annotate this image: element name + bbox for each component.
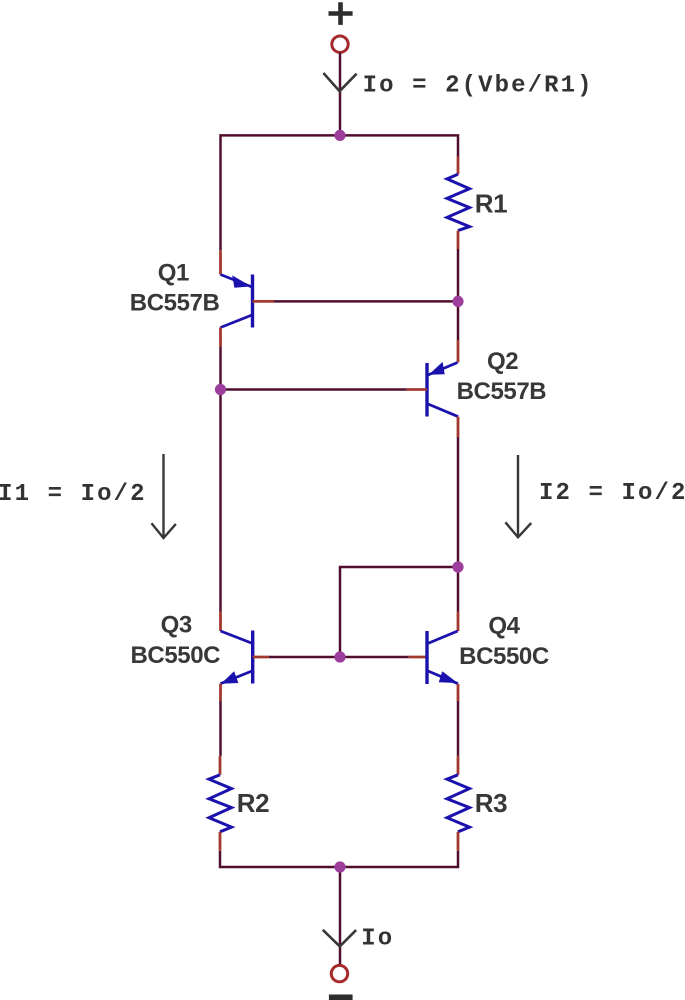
- wire Q4 emitter to R3: [457, 701, 460, 756]
- current arrow I2: [505, 455, 531, 537]
- wire top terminal to rail: [339, 53, 342, 136]
- pin Q4 emitter: [457, 684, 460, 701]
- wire R1 bottom to Q2 emitter: [457, 249, 460, 340]
- top terminal circle: [332, 36, 348, 52]
- junction R1 bottom / Q1 base node: [452, 296, 463, 307]
- plus terminal symbol +: [329, 2, 353, 25]
- transistor Q4 BC550C (NPN mirrored): [427, 631, 458, 684]
- wire collector tap to base rail: [340, 567, 458, 657]
- svg-text:BC557B: BC557B: [457, 378, 547, 405]
- wire Q2 base: [221, 388, 407, 391]
- current arrow Io (top): [323, 73, 356, 91]
- pin R2 top: [219, 756, 222, 775]
- pin Q2 emitter: [457, 340, 460, 363]
- current arrow I1: [152, 454, 176, 538]
- svg-text:BC550C: BC550C: [130, 642, 220, 669]
- pin Q3 collector: [219, 612, 222, 632]
- pin R1 bottom: [457, 231, 460, 249]
- resistor R3: [447, 775, 470, 832]
- junction bottom rail node: [334, 861, 345, 872]
- junction left column / Q2 base node: [215, 384, 226, 395]
- resistor R1: [447, 174, 470, 230]
- pin R1 top: [457, 157, 460, 175]
- pin Q4 base: [409, 656, 427, 659]
- resistor R2: [209, 775, 232, 832]
- wire left column Q1 collector to Q3 collector: [219, 347, 222, 612]
- svg-text:I1 = Io/2: I1 = Io/2: [0, 481, 147, 508]
- junction right column tap node: [452, 561, 463, 572]
- junction base rail node: [334, 651, 345, 662]
- pin Q2 collector: [457, 417, 460, 437]
- bottom terminal circle: [331, 965, 347, 981]
- pin R3 bottom: [457, 832, 460, 851]
- wire right column Q2 collector to Q4 collector: [457, 437, 460, 612]
- pin Q3 base: [253, 656, 269, 659]
- wire base rail Q3-Q4: [269, 656, 409, 659]
- transistor Q2 BC557B (PNP mirrored): [427, 362, 458, 417]
- svg-text:Q2: Q2: [487, 348, 518, 375]
- svg-text:R2: R2: [237, 788, 269, 818]
- pin Q1 collector: [219, 328, 222, 348]
- svg-text:Q1: Q1: [158, 260, 189, 287]
- svg-text:Q3: Q3: [161, 612, 192, 639]
- svg-text:Io = 2(Vbe/R1): Io = 2(Vbe/R1): [363, 72, 594, 99]
- transistor Q1 BC557B (PNP): [221, 275, 253, 328]
- pin Q3 emitter: [219, 684, 222, 701]
- pin Q4 collector: [457, 612, 460, 632]
- svg-text:BC550C: BC550C: [459, 643, 549, 670]
- wire bottom rail: [220, 851, 458, 867]
- pin R3 top: [457, 756, 460, 775]
- wire Q1 base to R1 bottom: [274, 300, 458, 303]
- junction top rail node: [334, 130, 345, 141]
- pin Q1 base: [253, 300, 275, 303]
- transistor Q3 BC550C (NPN): [221, 631, 253, 684]
- svg-text:BC557B: BC557B: [130, 290, 220, 317]
- wire top rail: [221, 135, 459, 250]
- svg-text:Io: Io: [361, 925, 394, 952]
- minus terminal symbol -: [329, 995, 353, 1000]
- svg-text:R1: R1: [475, 188, 507, 218]
- pin Q1 emitter: [219, 250, 222, 274]
- svg-text:Q4: Q4: [488, 613, 520, 640]
- pin Q2 base: [407, 388, 427, 391]
- svg-text:R3: R3: [475, 788, 507, 818]
- svg-text:I2 = Io/2: I2 = Io/2: [539, 480, 685, 507]
- pin R2 bottom: [219, 832, 222, 851]
- wire Q3 emitter to R2: [219, 701, 222, 756]
- current arrow Io (bottom): [323, 930, 356, 947]
- wire bottom rail to bottom terminal: [339, 867, 342, 966]
